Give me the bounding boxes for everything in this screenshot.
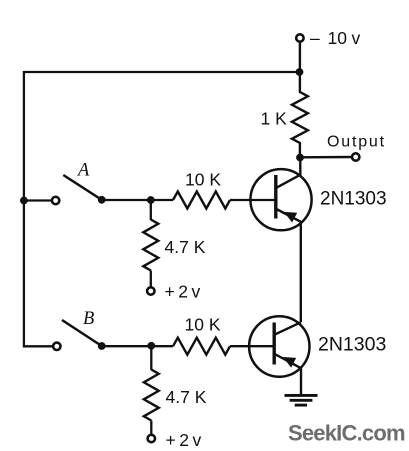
svg-text:+ 2 v: + 2 v bbox=[166, 430, 202, 450]
svg-text:1 K: 1 K bbox=[261, 109, 288, 129]
svg-text:10 K: 10 K bbox=[185, 315, 221, 335]
terminal +2v A bbox=[147, 287, 154, 294]
wire R3 bottom bbox=[150, 271, 152, 287]
terminal +2v B bbox=[148, 435, 155, 442]
wire A row bbox=[102, 199, 173, 201]
resistor R1 1K bbox=[292, 92, 308, 158]
switch A blade bbox=[63, 175, 101, 200]
wire left vertical bus bbox=[24, 71, 52, 346]
svg-text:2N1303: 2N1303 bbox=[318, 334, 386, 356]
terminal switch A pole bbox=[52, 197, 59, 204]
resistor R2 10K bbox=[173, 192, 230, 209]
svg-text:A: A bbox=[76, 160, 90, 180]
node B contact bbox=[98, 342, 106, 350]
svg-text:B: B bbox=[83, 309, 94, 329]
svg-text:10 K: 10 K bbox=[185, 170, 221, 190]
terminal Output bbox=[352, 153, 359, 160]
ground bbox=[285, 368, 318, 405]
switch B blade bbox=[62, 320, 102, 346]
node A tap bbox=[20, 197, 28, 205]
wire top horizontal bus bbox=[24, 71, 300, 73]
node output junction bbox=[296, 154, 304, 162]
transistor Q1 2N1303 bbox=[250, 158, 311, 231]
wire B row bbox=[102, 345, 173, 347]
transistor Q2 2N1303 bbox=[249, 316, 309, 376]
wire R5 top bbox=[150, 346, 152, 370]
node top junction bbox=[296, 68, 304, 76]
svg-text:2N1303: 2N1303 bbox=[320, 189, 387, 210]
terminal -10v bbox=[296, 34, 303, 93]
svg-text:4.7 K: 4.7 K bbox=[166, 387, 207, 407]
wire base Q1 bbox=[230, 199, 276, 201]
node R5 junction bbox=[147, 342, 155, 350]
wire Q1 emitter to Q2 collector bbox=[300, 222, 302, 322]
resistor R5 4.7K bbox=[144, 370, 159, 421]
wire A pole bbox=[24, 199, 51, 201]
resistor R4 10K bbox=[173, 338, 230, 355]
node R3 junction bbox=[147, 196, 155, 204]
wire base Q2 bbox=[230, 345, 275, 347]
terminal switch B pole bbox=[53, 343, 60, 350]
node A contact bbox=[98, 196, 106, 204]
svg-text:SeekIC.com: SeekIC.com bbox=[288, 421, 405, 446]
svg-text:4.7 K: 4.7 K bbox=[165, 237, 206, 257]
wire R5 bottom bbox=[150, 421, 152, 435]
wire output bbox=[300, 156, 351, 159]
svg-text:–10v: –10v bbox=[310, 28, 361, 48]
wire R3 top bbox=[150, 200, 152, 220]
svg-text:+ 2 v: + 2 v bbox=[165, 282, 201, 302]
resistor R3 4.7K bbox=[143, 220, 158, 271]
svg-text:Output: Output bbox=[327, 134, 386, 151]
